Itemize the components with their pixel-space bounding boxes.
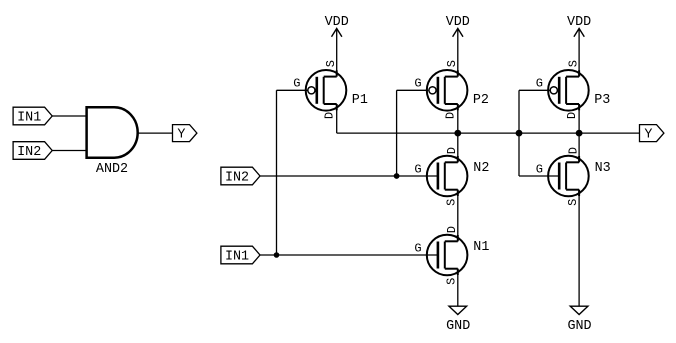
wire bbox=[396, 90, 398, 176]
svg-text:D: D bbox=[565, 112, 579, 119]
wire bbox=[52, 115, 87, 117]
wire bbox=[457, 104, 459, 162]
svg-text:GND: GND bbox=[446, 319, 470, 334]
transistor P1 (PMOS) bbox=[306, 70, 347, 111]
svg-text:IN2: IN2 bbox=[17, 145, 41, 160]
svg-text:Y: Y bbox=[644, 128, 652, 143]
transistor N1 (NMOS) bbox=[427, 235, 468, 276]
hierarchical label IN2 bbox=[13, 142, 52, 160]
svg-text:G: G bbox=[293, 77, 300, 91]
svg-text:S: S bbox=[566, 199, 580, 206]
svg-text:G: G bbox=[414, 241, 421, 255]
svg-text:D: D bbox=[444, 112, 458, 119]
wire bbox=[138, 132, 173, 134]
svg-text:Y: Y bbox=[177, 128, 185, 143]
power symbol VDD bbox=[446, 15, 470, 76]
wire bbox=[277, 89, 308, 91]
svg-text:P2: P2 bbox=[473, 93, 489, 108]
svg-text:S: S bbox=[324, 60, 338, 67]
svg-text:N1: N1 bbox=[473, 240, 489, 255]
wire bbox=[457, 269, 459, 306]
junction bbox=[394, 173, 400, 179]
power symbol VDD bbox=[325, 15, 349, 76]
svg-text:IN2: IN2 bbox=[225, 171, 249, 186]
svg-text:P3: P3 bbox=[594, 93, 610, 108]
svg-text:S: S bbox=[567, 60, 581, 67]
wire bbox=[259, 254, 437, 256]
svg-text:AND2: AND2 bbox=[96, 162, 128, 177]
junction bbox=[454, 130, 461, 137]
power symbol VDD bbox=[567, 15, 591, 76]
hierarchical label Y bbox=[640, 125, 664, 143]
wire bbox=[259, 175, 437, 177]
wire bbox=[276, 90, 278, 255]
svg-text:IN1: IN1 bbox=[17, 111, 41, 126]
transistor P3 (PMOS) bbox=[548, 70, 589, 111]
svg-text:D: D bbox=[567, 147, 581, 154]
wire bbox=[397, 89, 429, 91]
svg-text:N3: N3 bbox=[595, 161, 611, 176]
wire bbox=[337, 132, 579, 134]
junction bbox=[274, 252, 280, 258]
svg-text:S: S bbox=[445, 60, 459, 67]
wire bbox=[578, 104, 580, 162]
wire bbox=[579, 132, 639, 134]
hierarchical label IN2 bbox=[221, 167, 260, 185]
svg-text:S: S bbox=[445, 278, 459, 285]
wire bbox=[336, 104, 338, 133]
svg-text:IN1: IN1 bbox=[225, 250, 249, 265]
wire bbox=[457, 190, 459, 242]
svg-text:G: G bbox=[536, 77, 543, 91]
svg-text:G: G bbox=[536, 162, 543, 176]
svg-text:G: G bbox=[414, 162, 421, 176]
hierarchical label IN1 bbox=[221, 246, 260, 264]
ground symbol GND bbox=[567, 306, 591, 334]
AND2 gate body bbox=[87, 107, 138, 177]
svg-text:D: D bbox=[445, 147, 459, 154]
transistor N2 (NMOS) bbox=[427, 156, 468, 197]
wire bbox=[578, 190, 580, 306]
junction bbox=[516, 130, 523, 137]
svg-text:D: D bbox=[445, 226, 459, 233]
svg-text:S: S bbox=[445, 199, 459, 206]
wire bbox=[519, 175, 559, 177]
wire bbox=[52, 150, 87, 152]
wire bbox=[519, 89, 550, 91]
hierarchical label Y bbox=[173, 125, 197, 143]
junction bbox=[576, 130, 583, 137]
wire bbox=[518, 90, 520, 176]
ground symbol GND bbox=[446, 306, 470, 334]
svg-text:GND: GND bbox=[567, 319, 591, 334]
svg-text:D: D bbox=[322, 112, 336, 119]
svg-text:N2: N2 bbox=[473, 161, 489, 176]
transistor P2 (PMOS) bbox=[427, 70, 468, 111]
hierarchical label IN1 bbox=[13, 107, 52, 125]
transistor N3 (NMOS) bbox=[548, 156, 589, 197]
svg-text:P1: P1 bbox=[352, 93, 368, 108]
svg-text:G: G bbox=[414, 77, 421, 91]
